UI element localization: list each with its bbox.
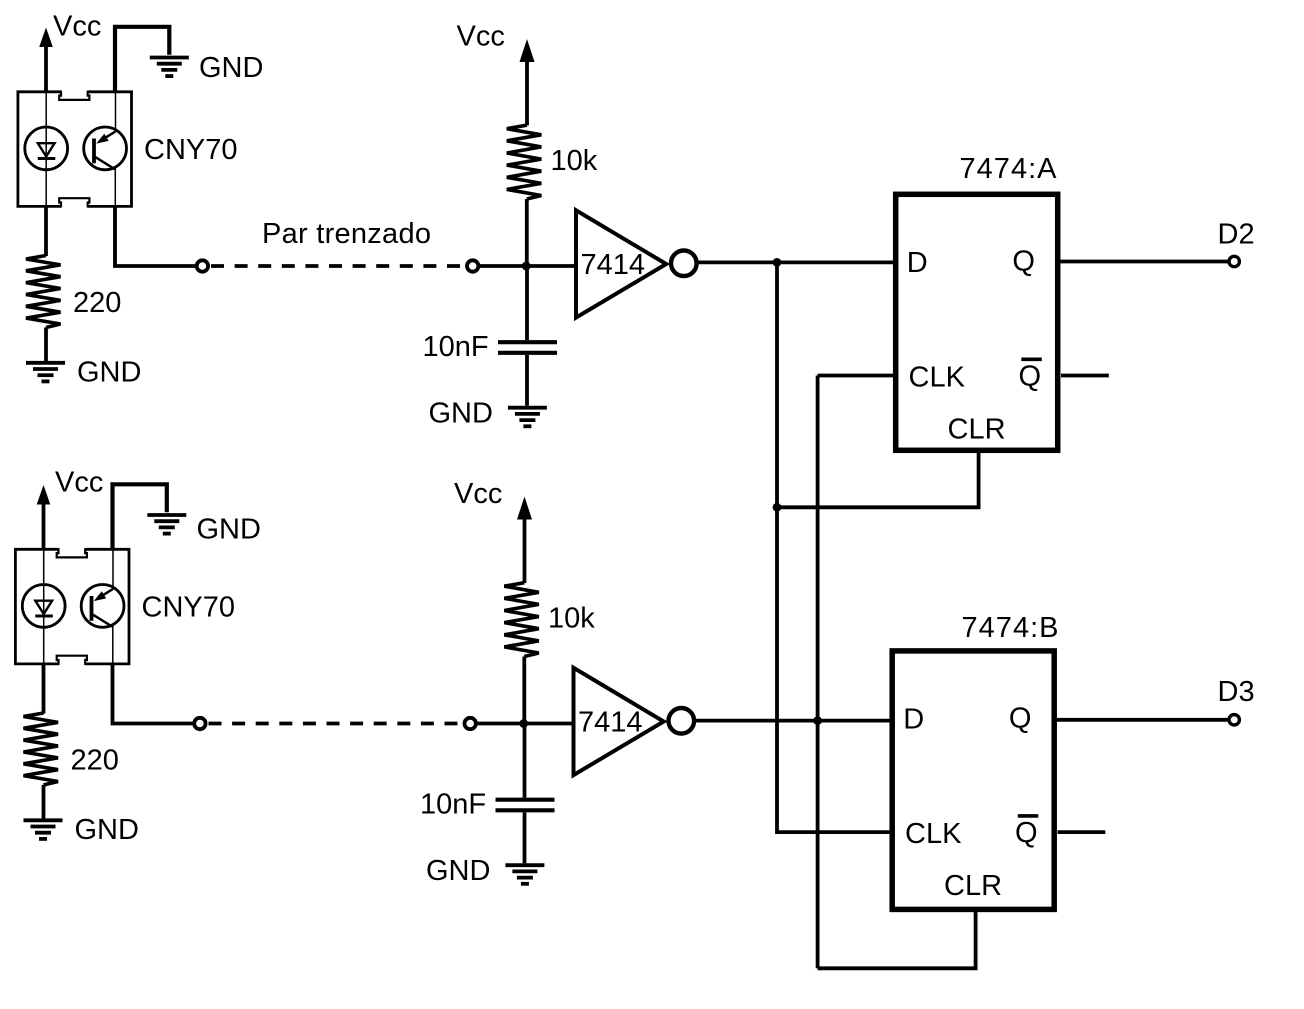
- power Vcc symbol (sensor 2): [37, 485, 51, 505]
- CNY70 top notch (sensor 2): [57, 548, 87, 557]
- svg-text:Vcc: Vcc: [457, 21, 505, 53]
- wire Q of 7474:A to D2 terminal: [1059, 260, 1228, 264]
- inverter 7414 output bubble (channel 2): [669, 708, 695, 734]
- wire terminal to inverter input (channel 2): [476, 722, 574, 726]
- ground (sensor 1 collector): [150, 56, 189, 60]
- svg-text:GND: GND: [426, 855, 490, 887]
- flip-flop U2 7474:B body: [892, 651, 1054, 910]
- wire CLK of 7474:A from net2: [818, 374, 894, 378]
- inverter 7414 (channel 2): [574, 668, 664, 775]
- node terminal D3: [1229, 715, 1239, 725]
- svg-text:GND: GND: [197, 514, 261, 546]
- wire LED cathode to 220 resistor (sensor 1): [44, 206, 48, 256]
- inverter 7414 (channel 1): [576, 210, 666, 317]
- node twisted-pair sending terminal (sensor 2): [194, 718, 205, 729]
- optocoupler CNY70 (sensor 1) body: [18, 92, 132, 207]
- junction node net2 at inverter2 output: [813, 716, 822, 725]
- optocoupler CNY70 (sensor 2) body: [15, 549, 129, 664]
- wire Q of 7474:B to D3 terminal: [1056, 718, 1228, 722]
- CNY70 bottom notch (sensor 2): [57, 656, 87, 665]
- CNY70 top notch (sensor 1): [59, 91, 89, 100]
- power Vcc symbol (pull-up 2): [517, 497, 532, 520]
- wire inverter1 output to D of 7474:A: [697, 260, 895, 264]
- svg-text:Q: Q: [1009, 702, 1032, 734]
- svg-text:CNY70: CNY70: [144, 134, 238, 166]
- junction node inverter1 output: [773, 258, 782, 267]
- wire net2 vertical drop: [816, 376, 820, 969]
- power Vcc symbol (pull-up 1): [520, 39, 535, 62]
- inverter 7414 output bubble (channel 1): [671, 250, 697, 276]
- svg-text:Vcc: Vcc: [53, 11, 101, 43]
- ground (sensor 1 emitter resistor): [26, 361, 65, 365]
- wire Q-bar stub (7474:B): [1058, 830, 1106, 834]
- svg-text:GND: GND: [77, 357, 141, 389]
- junction input node (channel 1): [522, 262, 531, 271]
- svg-text:CLR: CLR: [948, 414, 1006, 446]
- wire emitter to twisted-pair terminal (sensor 1): [115, 207, 197, 267]
- svg-text:Vcc: Vcc: [55, 467, 103, 499]
- CNY70 phototransistor (sensor 2): [81, 585, 124, 628]
- svg-text:7414: 7414: [581, 249, 646, 281]
- svg-text:10k: 10k: [548, 602, 595, 634]
- resistor 10k (pull-up 1): [507, 125, 542, 199]
- power Vcc symbol (sensor 1): [39, 28, 53, 48]
- svg-text:GND: GND: [199, 52, 263, 84]
- wire inverter2 output to D of 7474:B: [692, 719, 891, 723]
- svg-text:Q: Q: [1019, 360, 1042, 392]
- wire CLR of 7474:B to net2: [818, 908, 976, 968]
- resistor 220 (sensor 1): [26, 256, 61, 328]
- svg-text:D: D: [907, 247, 928, 279]
- wire 10k to input node (channel 2): [522, 657, 526, 724]
- ground (sensor 2 collector): [147, 513, 186, 517]
- svg-text:D: D: [903, 704, 924, 736]
- wire 220 resistor to ground (sensor 1): [44, 328, 48, 362]
- svg-text:GND: GND: [75, 814, 139, 846]
- ground (sensor 2 emitter resistor): [24, 818, 63, 822]
- wire Q-bar stub (7474:A): [1061, 374, 1109, 378]
- wire collector to ground (sensor 2): [113, 484, 167, 550]
- node terminal D2: [1229, 256, 1239, 266]
- svg-text:7414: 7414: [578, 707, 643, 739]
- svg-text:220: 220: [73, 287, 121, 319]
- svg-text:D2: D2: [1218, 218, 1255, 250]
- svg-text:Q: Q: [1015, 817, 1038, 849]
- capacitor 10nF (channel 2): [523, 724, 527, 798]
- ground (capacitor 2): [505, 863, 544, 867]
- svg-text:D3: D3: [1218, 676, 1255, 708]
- wire twisted pair dashed line (channel 1): [211, 264, 465, 268]
- svg-text:10nF: 10nF: [420, 789, 486, 821]
- svg-text:CLK: CLK: [905, 818, 962, 850]
- wire collector to ground (sensor 1): [115, 27, 169, 93]
- node twisted-pair receiving terminal (channel 1): [467, 260, 478, 271]
- wire net1 vertical drop to CLK of 7474:B: [777, 262, 892, 832]
- svg-text:CLR: CLR: [944, 870, 1002, 902]
- junction input node (channel 2): [519, 719, 528, 728]
- capacitor 10nF (channel 1): [525, 266, 529, 340]
- svg-text:10nF: 10nF: [423, 331, 489, 363]
- resistor 10k (pull-up 2): [504, 583, 539, 657]
- wire terminal to inverter input (channel 1): [479, 264, 577, 268]
- svg-text:Par trenzado: Par trenzado: [262, 218, 431, 250]
- wire 220 resistor to ground (sensor 2): [42, 785, 46, 819]
- resistor 220 (sensor 2): [24, 713, 59, 785]
- svg-text:220: 220: [71, 745, 119, 777]
- ground (capacitor 1): [508, 406, 547, 410]
- svg-text:GND: GND: [429, 398, 493, 430]
- svg-text:7474:A: 7474:A: [960, 153, 1058, 185]
- svg-text:CLK: CLK: [909, 361, 966, 393]
- svg-text:Vcc: Vcc: [454, 478, 502, 510]
- CNY70 LED (sensor 1): [45, 93, 47, 205]
- wire 10k to input node (channel 1): [525, 199, 529, 266]
- CNY70 bottom notch (sensor 1): [59, 198, 89, 207]
- CNY70 phototransistor (sensor 1): [84, 127, 127, 170]
- wire twisted pair dashed line (channel 2): [209, 722, 463, 726]
- flip-flop U1 7474:A body: [896, 194, 1058, 450]
- wire CLR of 7474:A to net1: [777, 451, 979, 507]
- svg-text:10k: 10k: [551, 145, 598, 177]
- node twisted-pair receiving terminal (channel 2): [465, 718, 476, 729]
- junction node net1 to CLR of 7474:A: [773, 503, 782, 512]
- svg-text:7474:B: 7474:B: [962, 612, 1059, 644]
- wire emitter to twisted-pair terminal (sensor 2): [113, 664, 195, 724]
- wire LED cathode to 220 resistor (sensor 2): [42, 664, 46, 714]
- node twisted-pair sending terminal (sensor 1): [197, 260, 208, 271]
- svg-text:CNY70: CNY70: [142, 592, 236, 624]
- svg-text:Q: Q: [1012, 246, 1035, 278]
- CNY70 LED (sensor 2): [43, 551, 45, 663]
